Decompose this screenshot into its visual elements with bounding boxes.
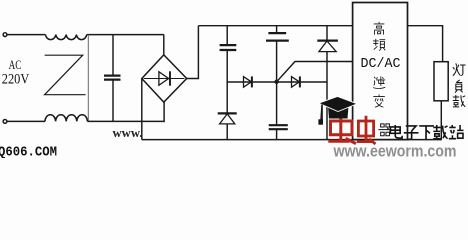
svg-text:DC/AC: DC/AC — [361, 57, 401, 72]
diode D2 bar — [251, 76, 253, 87]
capacitor C2 top lead — [226, 26, 228, 45]
watermark 站 — [449, 125, 464, 139]
label 灯 — [453, 63, 466, 75]
wire bridge positive — [187, 26, 199, 79]
wire bridge top AC — [163, 35, 165, 55]
terminal bottom input — [3, 120, 7, 124]
wire bridge negative drop — [141, 79, 143, 140]
wire diagonal to inverter — [277, 62, 353, 82]
wire bridge bottom AC — [163, 102, 165, 121]
watermark graduation cap — [318, 96, 357, 124]
bridge internal diode triangle — [159, 72, 169, 86]
capacitor C3 top lead — [276, 26, 278, 33]
wire vertical link — [87, 35, 89, 122]
capacitor C4 — [269, 125, 288, 129]
terminal top input — [3, 33, 7, 37]
label 逆 — [373, 76, 385, 88]
label 频 — [373, 39, 385, 51]
wire bottom AC to bridge — [87, 120, 164, 122]
wire middle branch — [227, 81, 327, 83]
junction node — [274, 80, 278, 84]
watermark 载2 — [433, 125, 447, 139]
svg-text:220V: 220V — [2, 72, 30, 88]
wire bottom AC — [7, 120, 45, 122]
svg-text:www.eeworm.com: www.eeworm.com — [333, 142, 457, 159]
diode D2 triangle — [244, 77, 252, 88]
wire C2 to D1 — [226, 50, 228, 113]
wire lamp to bottom rail — [440, 101, 442, 140]
lamp load resistor — [434, 62, 448, 101]
diode D1 triangle — [220, 114, 235, 124]
diode D4 bar — [317, 39, 338, 41]
capacitor C2 — [220, 45, 237, 50]
watermark 下 — [419, 126, 434, 139]
capacitor C1 — [112, 35, 114, 76]
inductor L1 — [46, 35, 87, 40]
wire C3 to C4 — [276, 41, 278, 125]
svg-text:AC: AC — [9, 58, 22, 72]
svg-text:www.: www. — [113, 125, 143, 140]
label 器 — [378, 124, 391, 136]
watermark 子 — [404, 126, 419, 139]
wire top DC rail — [198, 25, 352, 27]
diode D1 bar — [218, 112, 237, 114]
surge suppressor Z — [45, 55, 86, 94]
diode D4 top lead — [326, 26, 328, 41]
diode D3 triangle — [292, 77, 300, 88]
inductor L2 — [45, 115, 87, 122]
diode D4 triangle — [319, 41, 336, 52]
wire D4 to bottom rail — [326, 52, 328, 140]
inverter box U1 — [353, 3, 408, 140]
wire inverter to lamp — [408, 26, 443, 62]
capacitor C4 bottom lead — [276, 129, 278, 139]
label 负 — [455, 80, 463, 93]
capacitor C3 — [266, 33, 289, 41]
svg-text:Q606.COM: Q606.COM — [0, 144, 57, 158]
bridge internal diode bar — [169, 71, 171, 85]
bridge internal diode line — [144, 78, 185, 80]
bridge rectifier B1 diamond — [142, 55, 187, 102]
watermark 电 — [390, 125, 402, 138]
label 变 — [373, 95, 384, 108]
label 载 — [453, 95, 465, 107]
watermark red bug 1 — [328, 116, 356, 144]
diode D3 bar — [299, 76, 301, 87]
watermark red bug 2 — [357, 116, 376, 144]
diode D1 bottom lead — [226, 124, 228, 140]
label 高 — [374, 22, 385, 35]
wire top AC — [7, 34, 46, 36]
wire bottom DC rail — [142, 139, 442, 141]
wire top AC to bridge — [87, 34, 164, 36]
